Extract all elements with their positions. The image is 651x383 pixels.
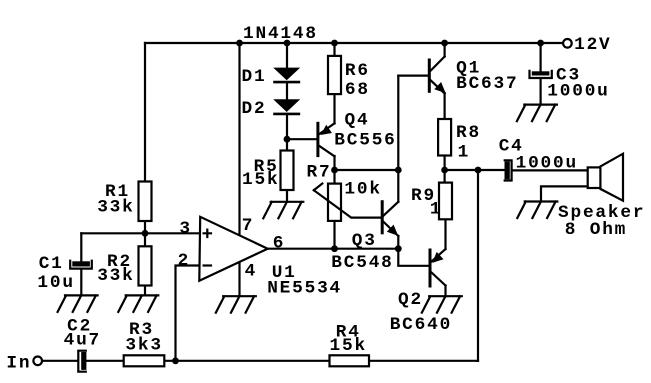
ground R2: [118, 295, 158, 312]
wire R6 bottom to Q4 emitter: [333, 94, 335, 123]
junction dot diode rail: [284, 40, 291, 47]
wire R2 bottom lead to ground: [144, 286, 146, 296]
wire D2 cathode down to R5: [286, 114, 288, 151]
wire op-amp pin 4 to ground: [238, 262, 240, 297]
wire output row to C4: [445, 169, 505, 171]
wire R1 bottom to R2 top through node A: [144, 221, 146, 246]
ground speaker: [517, 202, 557, 219]
wire C1 bottom lead to ground: [80, 269, 82, 295]
ground Q2: [422, 296, 462, 313]
junction dot Q1 base column at node row: [395, 167, 402, 174]
wire R8 bottom to R9 top output node: [444, 156, 446, 183]
svg-text:7: 7: [242, 216, 254, 236]
wire R6 top lead: [333, 43, 335, 56]
resistor R8: [438, 119, 451, 156]
svg-text:3: 3: [179, 219, 191, 239]
junction dot C3 rail: [537, 40, 544, 47]
ground C3: [517, 105, 557, 122]
ground op-amp pin 4: [216, 296, 256, 313]
svg-text:R8: R8: [456, 123, 481, 143]
svg-text:R6: R6: [345, 61, 370, 81]
svg-text:BC637: BC637: [456, 74, 518, 94]
junction dot inverting node at bottom row: [172, 357, 179, 364]
wire R9 bottom to Q2 emitter: [444, 219, 446, 249]
wire Q1 base column vertical: [397, 76, 399, 202]
wire C3 bottom lead to ground: [539, 80, 541, 105]
svg-text:6: 6: [273, 233, 285, 253]
svg-text:D2: D2: [242, 99, 267, 119]
wire Q3 emitter tail and Q2 base link: [398, 236, 430, 266]
svg-text:10u: 10u: [37, 273, 74, 293]
svg-text:BC548: BC548: [331, 253, 393, 273]
resistor R3: [124, 355, 165, 366]
wire Q4 collector down to R7 node: [333, 156, 335, 184]
junction dot feedback takeoff: [475, 167, 482, 174]
svg-text:BC640: BC640: [390, 315, 452, 335]
ground C1: [58, 295, 98, 312]
svg-text:Q3: Q3: [352, 231, 377, 251]
junction dot Q1 collector rail: [441, 40, 448, 47]
capacitor C3: [530, 71, 552, 78]
svg-text:33k: 33k: [97, 266, 134, 286]
node A junction dot: [142, 230, 149, 237]
svg-text:8 Ohm: 8 Ohm: [565, 220, 627, 240]
wire R4 to feedback corner: [369, 360, 478, 362]
wire In terminal to C2: [43, 360, 78, 362]
resistor R2: [139, 246, 152, 285]
svg-text:1000u: 1000u: [547, 81, 609, 101]
svg-text:4: 4: [245, 262, 257, 282]
wire op-amp output pin 6 row: [268, 248, 399, 250]
svg-text:BC556: BC556: [334, 130, 396, 150]
diode D2: [273, 99, 300, 114]
transistor Q1: [429, 57, 445, 94]
speaker: [588, 154, 623, 201]
junction dot output node at R8/R9: [441, 167, 448, 174]
transistor Q4: [318, 123, 335, 156]
resistor R9: [439, 183, 452, 220]
svg-text:12V: 12V: [574, 35, 611, 55]
junction dot pin7 rail: [236, 40, 243, 47]
svg-text:Q4: Q4: [345, 111, 370, 131]
wire C2 to R3: [86, 360, 124, 362]
wire C4 to speaker: [512, 169, 588, 171]
wire between D1 and D2: [286, 82, 288, 100]
svg-text:10k: 10k: [344, 179, 381, 199]
wire feedback column down to R4: [477, 170, 479, 361]
wire R7 node row to Q1 base column: [335, 169, 399, 171]
svg-text:NE5534: NE5534: [267, 279, 342, 299]
transistor Q2: [430, 249, 446, 286]
svg-text:2: 2: [178, 251, 190, 271]
wire inverting input pin 2: [176, 266, 201, 361]
svg-text:1: 1: [458, 142, 470, 162]
capacitor C2: [78, 351, 86, 372]
resistor R4: [330, 355, 370, 366]
wire diode chain column from rail: [286, 43, 288, 69]
wire R7 bottom lead to output row: [333, 221, 335, 249]
wire speaker return to ground: [541, 186, 588, 201]
wiper arrow tick R7: [314, 184, 323, 191]
diode D1: [273, 68, 300, 83]
svg-text:4u7: 4u7: [64, 331, 101, 351]
op-amp minus symbol: [204, 264, 211, 266]
svg-text:1N4148: 1N4148: [243, 24, 318, 44]
junction dot D2/R5/Q4 base node: [284, 136, 291, 143]
wire top 12V rail: [145, 42, 563, 44]
wire op-amp pin 7 supply from rail: [238, 43, 240, 235]
wire R3 to R4 bottom row: [164, 360, 329, 362]
wire Q1 base horizontal: [398, 74, 429, 76]
resistor R7 body: [328, 184, 341, 221]
op-amp plus symbol: [204, 230, 211, 237]
junction dot Q3 emitter at output row: [395, 245, 402, 252]
wire R5 bottom lead to ground: [286, 190, 288, 202]
svg-text:1000u: 1000u: [516, 154, 578, 174]
ground R5: [263, 202, 303, 219]
resistor R6: [328, 56, 341, 94]
wire C3 top lead from rail: [539, 43, 541, 71]
svg-text:15k: 15k: [242, 170, 279, 190]
svg-text:In: In: [6, 354, 31, 374]
junction dot R7 top node: [331, 167, 338, 174]
svg-text:33k: 33k: [97, 197, 134, 217]
wire C1 top lead: [80, 233, 82, 261]
svg-text:R7: R7: [307, 162, 332, 182]
junction dot R7 bottom at op-amp output row: [331, 245, 338, 252]
resistor R5: [281, 151, 294, 191]
svg-text:15k: 15k: [330, 336, 367, 356]
op-amp U1 triangle: [199, 217, 267, 281]
wire R1 top lead from rail corner: [144, 43, 146, 182]
svg-text:3k3: 3k3: [125, 336, 162, 356]
terminal 12V: [563, 39, 572, 48]
wire Q1 collector from rail: [444, 43, 446, 57]
wire noninverting input row (C1 to pin 3): [81, 232, 200, 234]
junction dot R6 rail: [331, 40, 338, 47]
resistor R1: [139, 182, 152, 222]
transistor Q3: [382, 202, 398, 236]
wire Q2 collector to ground: [444, 286, 446, 297]
svg-text:68: 68: [345, 80, 370, 100]
capacitor C1: [70, 261, 92, 269]
terminal In: [33, 357, 42, 366]
wire Q4 base: [287, 138, 318, 140]
svg-text:Q2: Q2: [398, 290, 423, 310]
svg-text:1: 1: [430, 200, 442, 220]
svg-text:C1: C1: [39, 254, 64, 274]
wire Q1 emitter down to R8: [444, 93, 446, 119]
svg-text:D1: D1: [242, 67, 267, 87]
capacitor C4: [505, 160, 512, 180]
wire R7 wiper to Q3 base: [314, 190, 382, 217]
